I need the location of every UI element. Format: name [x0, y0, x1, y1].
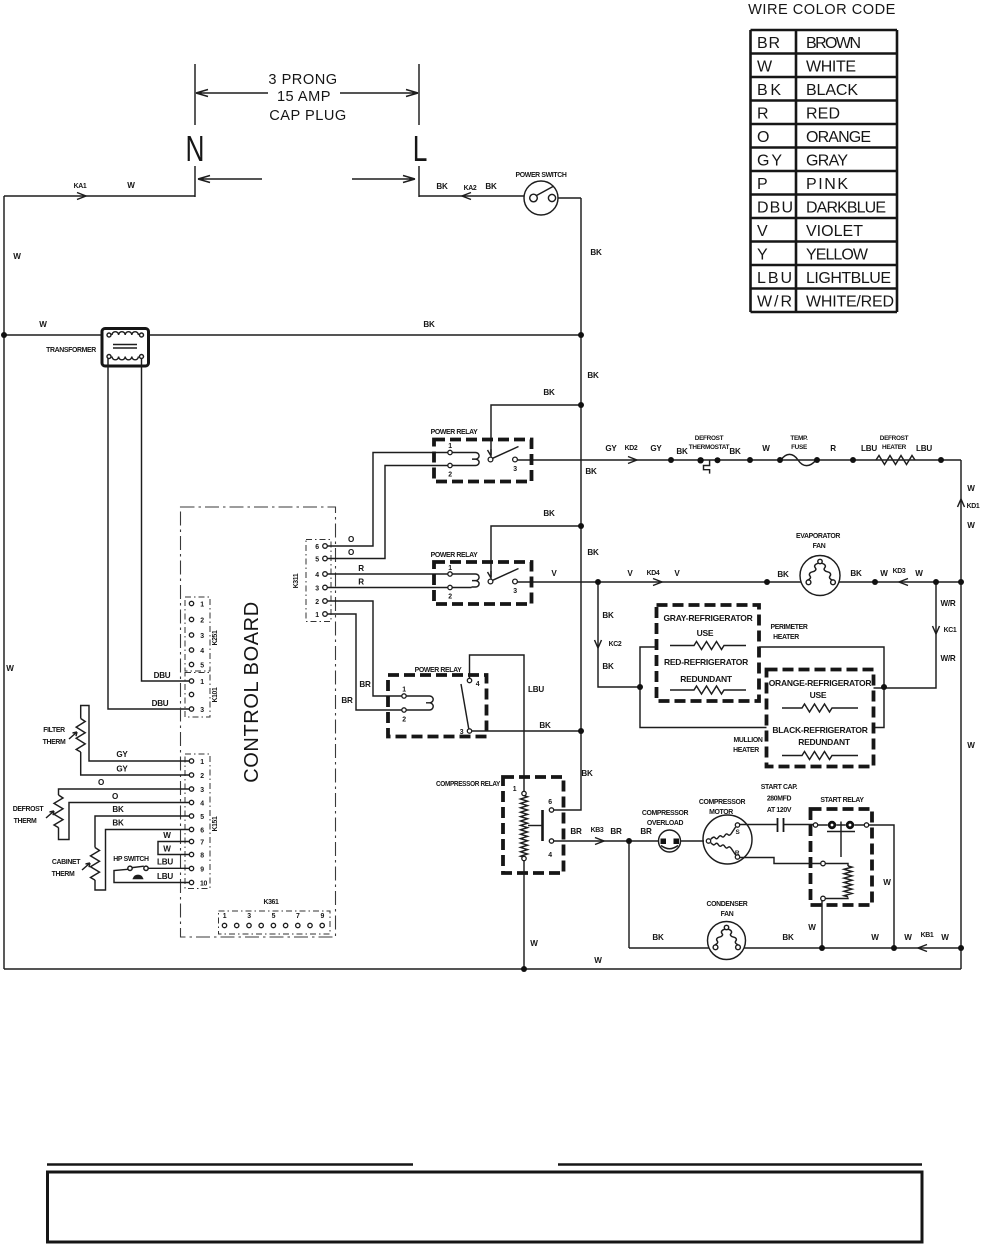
svg-text:7: 7: [200, 840, 204, 847]
svg-text:BR: BR: [610, 827, 622, 836]
power relay 3 pin 2: [402, 708, 406, 712]
svg-text:WHITE/RED: WHITE/RED: [806, 294, 894, 311]
svg-text:9: 9: [200, 867, 204, 874]
orange heater resistor 2: [782, 752, 858, 760]
svg-text:K151: K151: [212, 816, 219, 832]
svg-text:R: R: [358, 578, 364, 587]
wire BK branch bus to relay2 pivot: [491, 526, 581, 577]
connector K311 pins: [323, 544, 328, 617]
table row Y YELLOW: [757, 247, 869, 264]
svg-text:COMPRESSOR RELAY: COMPRESSOR RELAY: [436, 781, 501, 788]
svg-text:AT 120V: AT 120V: [767, 807, 792, 814]
lower arrow at N: [198, 176, 262, 183]
svg-text:BK: BK: [590, 248, 602, 257]
svg-text:CABINET: CABINET: [52, 859, 81, 866]
title block top line left: [47, 1163, 413, 1165]
compressor motor label: [699, 799, 746, 816]
connector K101 pins: [189, 679, 193, 711]
svg-text:O: O: [348, 535, 354, 544]
compressor motor pin C: [706, 839, 710, 843]
svg-text:CONDENSER: CONDENSER: [707, 901, 748, 908]
cap plug terminal L tick: [418, 64, 420, 197]
svg-text:REDUNDANT: REDUNDANT: [798, 737, 851, 747]
compressor overload symbol: [659, 830, 681, 852]
svg-text:USE: USE: [810, 690, 827, 700]
wire gray heater right links: [759, 647, 884, 728]
svg-text:CAP PLUG: CAP PLUG: [269, 108, 347, 124]
svg-text:BK: BK: [777, 570, 789, 579]
wire power switch to bus: [558, 197, 581, 199]
power relay 2 box: [434, 562, 532, 604]
svg-text:R: R: [358, 564, 364, 573]
evaporator fan motor: [800, 556, 840, 596]
start relay left pin: [813, 823, 817, 827]
table row P PINK: [757, 176, 848, 193]
wire BK branch bus to relay1 pivot: [491, 405, 581, 455]
connector K361 pins: [222, 923, 324, 927]
power relay 1 contact 3: [513, 457, 518, 462]
svg-text:P: P: [757, 176, 768, 193]
svg-text:4: 4: [548, 852, 552, 859]
svg-text:THERM: THERM: [43, 739, 66, 746]
wire K311 pin4 to relay2 pin1: [327, 573, 448, 575]
defrost thermostat symbol: [697, 457, 720, 474]
compressor relay contact bar: [541, 810, 544, 841]
compressor motor pin R: [735, 855, 739, 859]
svg-text:BR: BR: [640, 827, 652, 836]
junction KC2 branch on evap line: [595, 579, 601, 585]
power relay 2 pin 2: [448, 585, 452, 589]
svg-text:BK: BK: [652, 933, 664, 942]
wire defrost therm bottom to K151 pin4: [59, 803, 190, 840]
arrowhead on relay2 pivot wire: [488, 571, 492, 578]
svg-text:BROWN: BROWN: [806, 35, 861, 52]
svg-text:TRANSFORMER: TRANSFORMER: [46, 347, 96, 354]
svg-text:DEFROST: DEFROST: [695, 435, 724, 442]
junction BR line: [626, 838, 632, 844]
wire filter therm top to K151 pin1: [81, 706, 190, 762]
connector K151 pin numbers: [200, 759, 207, 888]
junction bus and relay1 branch: [578, 402, 584, 408]
junction condenser line a: [819, 945, 825, 951]
junction evap line KC1: [933, 579, 939, 585]
wire start relay bottom pin to condenser line: [821, 901, 823, 948]
start relay contact b: [846, 821, 854, 829]
svg-text:WIRE COLOR CODE: WIRE COLOR CODE: [748, 2, 896, 18]
svg-text:W: W: [762, 444, 770, 453]
junction condenser line right: [958, 945, 964, 951]
connector K311 pin numbers: [315, 544, 319, 619]
svg-text:4: 4: [476, 681, 480, 688]
start relay lower pin: [821, 861, 826, 866]
connector arrow KA1: [77, 193, 86, 200]
svg-text:COMPRESSOR: COMPRESSOR: [699, 799, 746, 806]
defrost therm label: [13, 806, 45, 825]
defrost therm resistor: [54, 795, 63, 828]
cap plug label: [268, 72, 346, 124]
title block rectangle: [48, 1172, 923, 1242]
junction defrost line b: [747, 457, 753, 463]
svg-text:TEMP.: TEMP.: [790, 435, 808, 442]
wire K311 pin5 to relay1 pin2: [327, 466, 448, 559]
svg-text:R: R: [735, 850, 740, 857]
table row O ORANGE: [757, 129, 871, 146]
svg-text:DBU: DBU: [154, 671, 171, 680]
compressor motor pin S: [735, 823, 739, 827]
svg-text:LBU: LBU: [757, 270, 792, 287]
power relay 3 coil: [406, 696, 433, 710]
start relay bottom pin: [821, 896, 826, 901]
svg-text:BK: BK: [782, 933, 794, 942]
svg-text:4: 4: [200, 648, 204, 655]
svg-text:GY: GY: [116, 765, 128, 774]
svg-text:K311: K311: [293, 573, 300, 588]
power relay 2 coil: [452, 574, 479, 588]
svg-text:W: W: [967, 521, 975, 530]
wire compressor relay coil to bottom rail: [523, 861, 525, 969]
svg-text:W: W: [594, 956, 602, 965]
svg-text:BK: BK: [850, 569, 862, 578]
wire K311 pin2 to relay3 pin1: [327, 601, 402, 696]
svg-text:KD3: KD3: [893, 568, 906, 575]
svg-text:PINK: PINK: [806, 176, 848, 193]
start capacitor label: [761, 784, 798, 814]
start relay contact wire: [818, 824, 865, 826]
evaporator fan label: [796, 533, 840, 550]
table row W WHITE: [757, 59, 856, 76]
temp fuse symbol: [781, 454, 816, 465]
svg-text:MULLION: MULLION: [734, 737, 763, 744]
svg-text:BR: BR: [570, 827, 582, 836]
connector arrow KC2: [595, 640, 602, 648]
junction evap line b: [872, 579, 878, 585]
svg-text:START CAP.: START CAP.: [761, 784, 798, 791]
svg-text:3: 3: [513, 466, 517, 473]
connector arrow KC1: [933, 626, 940, 634]
svg-text:LBU: LBU: [861, 444, 877, 453]
svg-text:FILTER: FILTER: [43, 727, 65, 734]
power relay 1 pin 1: [448, 450, 452, 454]
connector K361 outline: [219, 911, 331, 934]
connector K101 pin numbers: [200, 679, 204, 714]
svg-text:10: 10: [200, 881, 207, 888]
start relay coil wire: [825, 864, 848, 867]
defrost thermostat label: [689, 435, 730, 451]
svg-text:2: 2: [200, 618, 204, 625]
svg-text:1: 1: [315, 612, 319, 619]
gray refrigerator heater box: [657, 605, 760, 701]
temp fuse label: [790, 435, 808, 451]
svg-text:VIOLET: VIOLET: [806, 223, 863, 240]
svg-text:1: 1: [223, 913, 227, 920]
svg-text:W: W: [941, 933, 949, 942]
svg-text:W: W: [904, 933, 912, 942]
connector K311 outline: [306, 540, 331, 622]
svg-text:GY: GY: [116, 750, 128, 759]
svg-text:5: 5: [272, 913, 276, 920]
junction condenser line b: [891, 945, 897, 951]
svg-text:W/R: W/R: [941, 654, 956, 663]
svg-text:RED-REFRIGERATOR: RED-REFRIGERATOR: [664, 657, 748, 667]
svg-text:BK: BK: [602, 662, 614, 671]
svg-text:USE: USE: [697, 628, 714, 638]
start capacitor symbol: [778, 818, 784, 832]
svg-text:BLACK: BLACK: [806, 82, 858, 99]
connector arrow KB1: [918, 945, 927, 952]
connector K251 outline: [185, 597, 210, 671]
wire motor S to start capacitor: [740, 824, 777, 826]
power relay 1 pivot: [488, 457, 493, 462]
start relay contact a: [828, 821, 836, 829]
wire HP switch to K151 pin9: [148, 867, 189, 869]
svg-text:HP SWITCH: HP SWITCH: [113, 856, 149, 863]
connector K251 pins: [189, 601, 193, 666]
junction left vertical and transformer wire: [1, 332, 7, 338]
svg-text:BK: BK: [543, 388, 555, 397]
compressor overload label: [642, 810, 689, 827]
svg-text:KD2: KD2: [625, 445, 638, 452]
svg-text:R: R: [757, 106, 769, 123]
mullion heater label: [733, 737, 763, 754]
connector arrow KD1: [958, 499, 965, 507]
table row BK BLACK: [757, 82, 858, 99]
svg-text:1: 1: [448, 565, 452, 572]
bottom rail wire: [4, 948, 961, 969]
defrost therm arrow: [46, 811, 54, 818]
junction evap line right edge: [958, 579, 964, 585]
condenser fan label: [707, 901, 748, 918]
svg-text:BK: BK: [585, 467, 597, 476]
wire compressor relay pin4 to overload: [554, 840, 659, 842]
transformer T1: [102, 329, 149, 367]
svg-text:KA2: KA2: [464, 185, 477, 192]
svg-text:POWER RELAY: POWER RELAY: [431, 429, 479, 436]
power relay 1 blade: [493, 447, 519, 459]
cabinet therm label: [52, 859, 82, 878]
filter therm resistor: [76, 719, 85, 752]
svg-text:BK: BK: [587, 371, 599, 380]
svg-text:POWER RELAY: POWER RELAY: [415, 667, 463, 674]
svg-text:WHITE: WHITE: [806, 59, 856, 76]
svg-text:THERM: THERM: [14, 818, 37, 825]
HP switch symbol: [128, 866, 148, 878]
svg-text:BK: BK: [729, 447, 741, 456]
wire left side vertical: [3, 196, 5, 969]
svg-text:DARKBLUE: DARKBLUE: [806, 200, 886, 217]
svg-text:2: 2: [200, 773, 204, 780]
svg-text:2: 2: [315, 599, 319, 606]
defrost circuit line: [517, 459, 961, 461]
svg-text:W: W: [39, 320, 47, 329]
svg-text:8: 8: [200, 853, 204, 860]
svg-text:GY: GY: [605, 444, 617, 453]
filter therm label: [43, 727, 66, 746]
compressor motor winding to S: [711, 827, 736, 839]
svg-text:6: 6: [548, 799, 552, 806]
wire neutral from left edge to N: [4, 195, 195, 197]
junction bus and transformer wire: [578, 332, 584, 338]
start relay coil to bottom pin: [825, 898, 848, 899]
gray heater resistor 1: [670, 642, 746, 650]
svg-text:V: V: [674, 569, 680, 578]
svg-text:W: W: [880, 569, 888, 578]
svg-text:3: 3: [460, 729, 464, 736]
power relay 3 contact 4: [467, 678, 471, 682]
svg-text:ORANGE-REFRIGERATOR: ORANGE-REFRIGERATOR: [769, 678, 872, 688]
power relay 2 pivot: [488, 579, 493, 584]
connector arrow KD4: [653, 579, 662, 586]
compressor relay bar tick: [528, 825, 543, 827]
svg-text:HEATER: HEATER: [773, 634, 799, 641]
wire cabinet therm bottom to K151 pin6: [95, 830, 189, 891]
svg-text:O: O: [348, 548, 354, 557]
svg-text:W: W: [530, 939, 538, 948]
compressor relay coil: [521, 796, 528, 858]
orange heater resistor 1: [782, 704, 858, 712]
svg-text:BK: BK: [539, 721, 551, 730]
svg-text:2: 2: [402, 717, 406, 724]
svg-text:3: 3: [200, 787, 204, 794]
svg-text:HEATER: HEATER: [733, 747, 759, 754]
svg-text:EVAPORATOR: EVAPORATOR: [796, 533, 840, 540]
svg-text:W: W: [967, 741, 975, 750]
junction heater left: [637, 684, 643, 690]
svg-text:L: L: [413, 128, 428, 169]
svg-text:GRAY-REFRIGERATOR: GRAY-REFRIGERATOR: [663, 613, 752, 623]
svg-text:COMPRESSOR: COMPRESSOR: [642, 810, 689, 817]
svg-text:O: O: [757, 129, 769, 146]
wire motor R to start relay lower pin: [740, 858, 821, 864]
svg-text:GY: GY: [650, 444, 662, 453]
wire KC2 branch down from bus junction: [598, 582, 640, 687]
power relay 3 blade: [461, 684, 469, 729]
evaporator fan circuit line: [517, 581, 961, 583]
start relay armature: [827, 822, 855, 858]
svg-text:K101: K101: [212, 687, 219, 703]
compressor motor winding to R: [711, 843, 736, 855]
svg-text:BK: BK: [423, 320, 435, 329]
start relay right pin: [864, 823, 868, 827]
svg-text:BK: BK: [112, 819, 124, 828]
svg-text:BR: BR: [757, 35, 780, 52]
power relay 2 contact 3: [513, 579, 518, 584]
dimension arrow between N and L: [196, 90, 418, 97]
svg-text:W: W: [915, 569, 923, 578]
junction bottom rail: [521, 966, 527, 972]
svg-text:LBU: LBU: [157, 858, 173, 867]
arrowhead on relay1 pivot wire: [488, 449, 492, 456]
compressor relay pin 1: [522, 791, 526, 795]
svg-text:6: 6: [200, 828, 204, 835]
svg-text:280MFD: 280MFD: [767, 796, 792, 803]
svg-text:1: 1: [200, 759, 204, 766]
svg-text:BK: BK: [581, 769, 593, 778]
svg-text:ORANGE: ORANGE: [806, 129, 871, 146]
svg-text:THERM: THERM: [52, 871, 75, 878]
filter therm arrow: [69, 732, 77, 739]
main bus vertical: [554, 198, 582, 810]
svg-text:LBU: LBU: [916, 444, 932, 453]
svg-text:W: W: [757, 59, 773, 76]
svg-text:BK: BK: [112, 805, 124, 814]
table row BR BROWN: [757, 35, 861, 52]
wire transformer secondary left leg to K101 pin3: [108, 359, 189, 710]
svg-text:FAN: FAN: [813, 543, 826, 550]
gray heater resistor 2: [670, 686, 746, 694]
svg-text:KC1: KC1: [944, 627, 957, 634]
cabinet therm resistor: [91, 848, 100, 881]
svg-text:BLACK-REFRIGERATOR: BLACK-REFRIGERATOR: [772, 725, 867, 735]
svg-text:CONTROL BOARD: CONTROL BOARD: [241, 601, 263, 783]
power relay 2 blade: [493, 569, 519, 581]
wire start relay right pin down to condenser line: [869, 825, 894, 948]
svg-text:2: 2: [448, 594, 452, 601]
junction defrost line a: [668, 457, 674, 463]
svg-text:KD1: KD1: [967, 503, 980, 510]
svg-text:O: O: [98, 778, 104, 787]
svg-text:DBU: DBU: [757, 200, 793, 217]
junction defrost line d: [814, 457, 820, 463]
svg-text:DBU: DBU: [152, 699, 169, 708]
power relay 1 coil: [452, 453, 479, 466]
compressor motor circle: [703, 815, 752, 864]
table row R RED: [757, 106, 840, 123]
svg-text:1: 1: [200, 602, 204, 609]
table row GY GRAY: [757, 153, 848, 170]
table row LBU LIGHTBLUE: [757, 270, 891, 287]
svg-text:BR: BR: [359, 680, 371, 689]
svg-text:BK: BK: [676, 447, 688, 456]
svg-text:V: V: [551, 569, 557, 578]
svg-text:5: 5: [200, 814, 204, 821]
svg-text:BR: BR: [341, 696, 353, 705]
svg-text:YELLOW: YELLOW: [806, 247, 869, 264]
svg-text:V: V: [757, 223, 768, 240]
svg-text:1: 1: [402, 687, 406, 694]
svg-text:POWER RELAY: POWER RELAY: [431, 552, 479, 559]
compressor relay coil bottom pin: [522, 856, 526, 860]
orange refrigerator heater box: [767, 670, 874, 767]
svg-text:BK: BK: [587, 548, 599, 557]
svg-text:3: 3: [200, 707, 204, 714]
power relay 3 box: [388, 675, 487, 737]
wire transformer feed: [4, 334, 581, 336]
wire K151 pin5 to cabinet therm top: [95, 816, 189, 848]
svg-text:V: V: [627, 569, 633, 578]
svg-text:KB3: KB3: [591, 827, 604, 834]
wire start capacitor to start relay: [784, 824, 814, 826]
svg-text:W: W: [808, 923, 816, 932]
wire line from L to power switch: [419, 195, 524, 197]
junction defrost line f: [938, 457, 944, 463]
svg-text:3: 3: [513, 588, 517, 595]
svg-text:START RELAY: START RELAY: [820, 797, 864, 804]
svg-text:7: 7: [296, 913, 300, 920]
svg-text:HEATER: HEATER: [882, 444, 907, 451]
svg-text:OVERLOAD: OVERLOAD: [647, 820, 684, 827]
svg-text:1: 1: [200, 679, 204, 686]
wire right edge vertical: [960, 460, 962, 948]
connector arrow KA2: [462, 193, 471, 200]
svg-text:LBU: LBU: [528, 685, 544, 694]
svg-text:KD4: KD4: [647, 570, 660, 577]
wire KC1 branch down from evap line: [884, 582, 936, 688]
svg-text:O: O: [112, 792, 118, 801]
svg-text:15 AMP: 15 AMP: [277, 89, 331, 105]
connector arrow KB3: [595, 838, 604, 845]
junction bus and relay3 output: [578, 728, 584, 734]
svg-text:POWER SWITCH: POWER SWITCH: [516, 172, 567, 179]
